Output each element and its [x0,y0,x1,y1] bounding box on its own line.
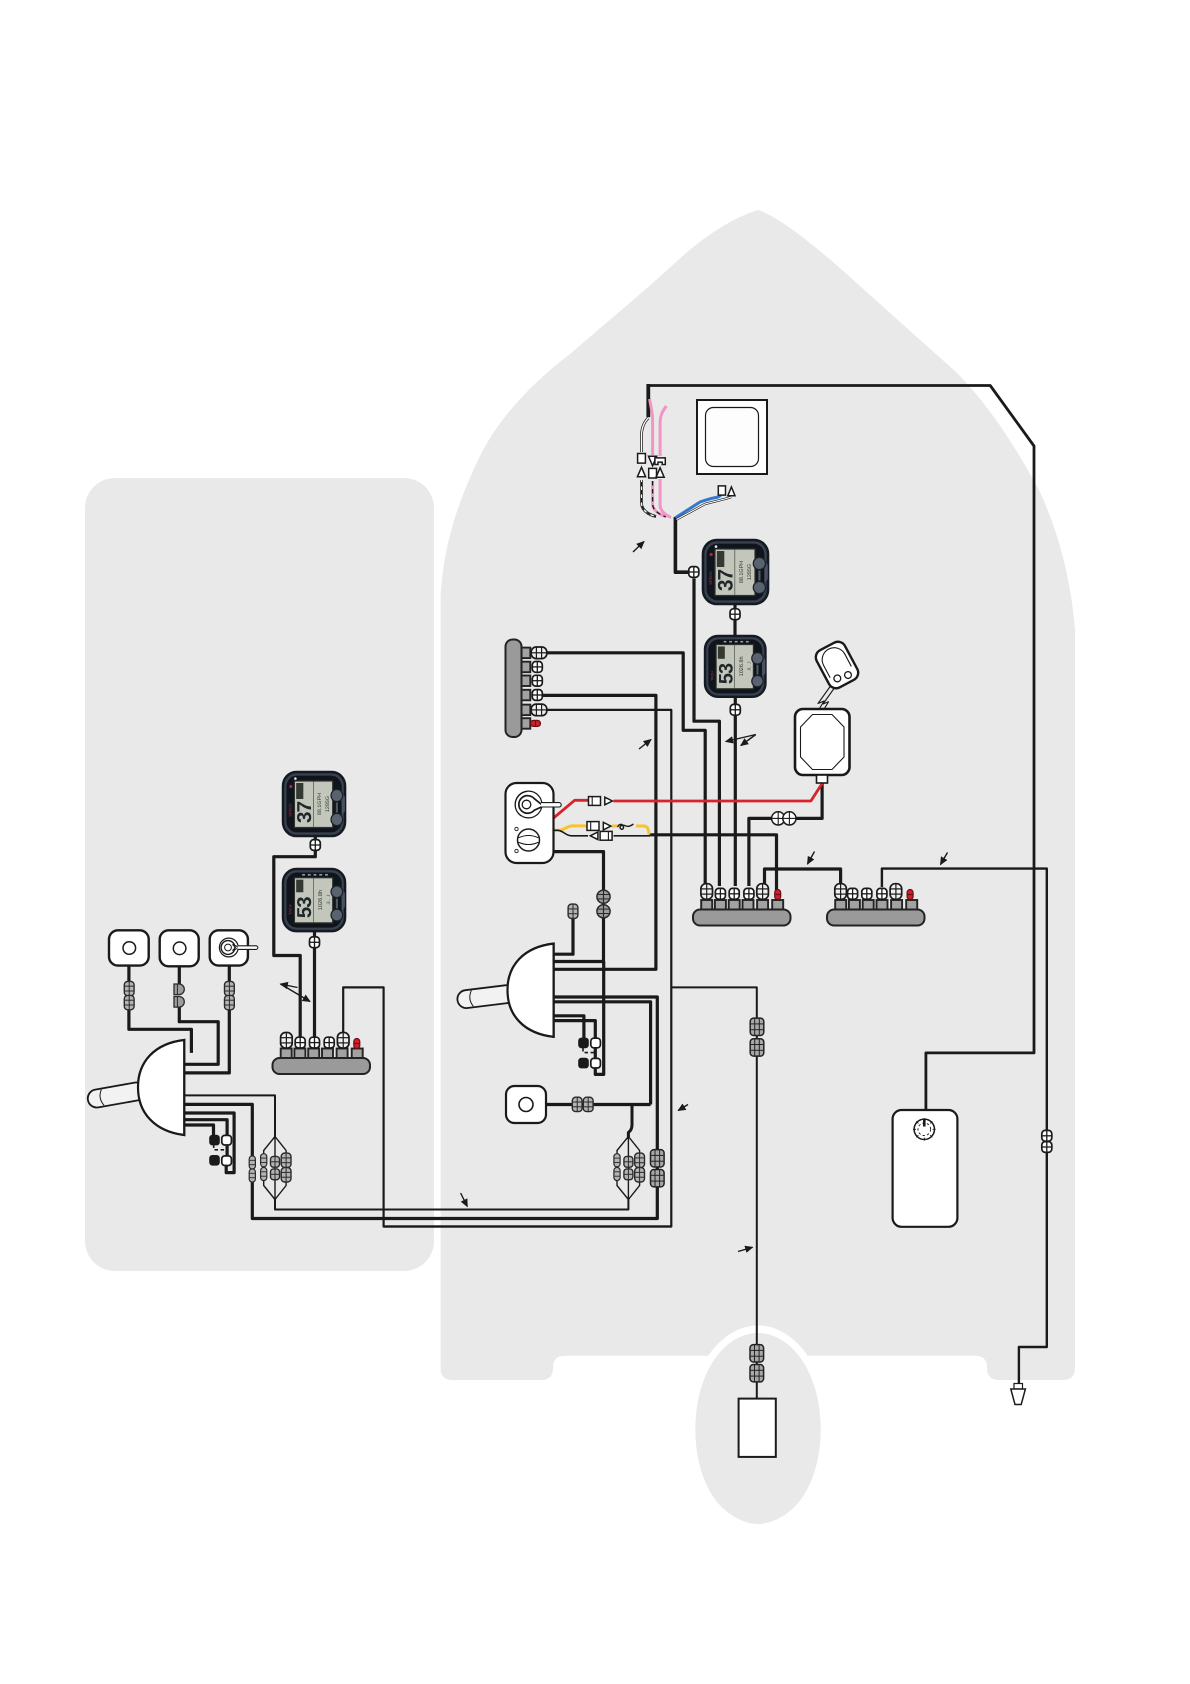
connector: bus1 stub2 [715,888,725,899]
connector: bus2 stub1 [835,884,847,900]
wire: helm switch2 lead to console [179,966,218,1064]
callout arrow: console bottom run [678,1105,688,1111]
wire: split-to-split bottom run [275,1199,628,1210]
wire: remote console stub lead (a) [554,917,573,954]
wire: helm speed gauge to helm bus stub2 [274,834,316,1040]
connector: bus2 stub3 [862,888,872,899]
wire: squiggle on yellow lead [618,824,634,829]
connectors: round pair on sensor ground [772,812,785,825]
wire: speed sensor lead to console tee [546,1103,651,1106]
speedometer gauge (console) [703,540,768,604]
wire: main switch to remote console (b) [553,852,604,962]
vertical bus bar [506,640,531,738]
main switch (ignition) panel [506,783,562,863]
wire: fuel sensor lightning link [812,686,835,727]
main bus bar 1 [693,900,791,926]
connector: bus2 stub6 (red) [907,890,913,900]
connector: speed gauge input [689,567,699,578]
connector pair on pink lead 2 [655,458,665,477]
wire: fuel sensor ground to main bus1 stub4 [749,781,822,886]
boat hull outline [441,210,1075,1380]
callout arrow: fuel pickup line [941,853,948,865]
wire: bus2 stub4 to fuel pickup [882,869,1047,1385]
wire: harness black/white lead (left of bundle) [642,418,657,517]
connector: bus1 stub4 [744,888,754,899]
wire: black stub dashed link console [583,1048,595,1053]
wire: helm console lead w1 to left split [185,1095,276,1137]
connector: helm bus stub2 [295,1037,305,1048]
helm switch 1 [109,930,149,965]
connector: vbus stub6 (red) [531,720,541,726]
connector: vbus stub5 [531,704,547,716]
remote control console [456,944,553,1037]
wire: harness blue lead [675,487,721,518]
wire: main switch black thin lead [553,830,588,836]
connector: helm bus stub4 [324,1037,334,1048]
key cylinder [515,791,542,818]
connectors: left split center [271,1156,280,1167]
connector pair on yellow lead [587,822,611,831]
callout arrow: helm gauge wires (double) [281,984,298,988]
callout arrow: gauge chain (double) [726,735,756,742]
wire: right split fork [617,1137,640,1200]
black connector pair (console trim) [578,1038,589,1069]
connector: vbus stub1 [531,647,547,659]
connector: bus1 stub5 [757,884,769,900]
connectors: motor harness stack upper [750,1018,764,1035]
connector: helm bus stub5 [337,1033,349,1049]
wire: console main harness (d) long run to helm console [185,997,658,1219]
helm steering console [86,1040,184,1135]
wire: trunk junction down to speed gauge connector [675,517,688,572]
connector: bus2 stub4 [877,888,887,899]
connectors: right split right column [635,1153,645,1167]
outboard motor silhouette [695,1333,820,1524]
connectors: round pair on console-switch link [597,890,610,903]
connector: helm bus stub6 (red) [354,1039,360,1049]
wire: speed gauge connector down to main bus1 stub2 [694,579,719,887]
connectors: right split center [624,1156,633,1167]
black connector pair (helm trim) [209,1135,220,1166]
wire: main switch black lead to bus1 stub6 [649,835,777,891]
wire: harness pink lead 1 [650,399,666,517]
connectors: fuel pickup line pair [1042,1130,1052,1141]
white connector pair (helm trim) [222,1135,232,1165]
connectors: motor harness stack lower [750,1345,764,1362]
connector: console stub (free) [568,904,578,918]
engine interface cap [813,639,861,691]
wire: bow loop from harness top to fuel sender [648,386,1034,1122]
callout arrow: harness trunk [633,542,644,553]
connectors: switch2 bullet leads [174,984,184,995]
helm tachometer gauge [283,869,345,931]
tachometer gauge (console) [705,636,765,697]
wire: helm switch1 lead [129,966,192,1053]
helm key switch [210,930,258,965]
choke knob [518,829,540,851]
connector: helm speed gauge [310,840,320,851]
wire: harness trunk top [646,384,650,417]
callout arrow: motor harness [738,1247,753,1251]
connector: bus1 stub6 (red) [775,890,781,900]
wire: tee down to right split [628,1105,632,1138]
speed sensor unit [506,1086,546,1123]
main bus bar 2 [827,900,925,926]
connector: helm bus stub1 [281,1033,293,1049]
connectors: left split left column [261,1154,267,1167]
fuel sender unit [914,1119,934,1139]
bilge access box [697,400,767,474]
connector pair on pink lead 1 [649,456,657,478]
wire: speed gauge to tach gauge link [733,602,736,639]
wire: remote console lead (e) to sensor tee [554,1002,651,1105]
connector: bus2 stub2 [848,888,858,899]
connectors: key switch leads [225,981,235,995]
connectors: left split right column [281,1153,291,1167]
control lever (console) [456,984,516,1009]
wire: helm tach gauge to helm bus stub3 [313,929,316,1040]
wire: remote console lead (f) to black connector [554,1016,584,1039]
callout arrow: vbus run [639,740,651,750]
wire: harness white lead (to bilge) [677,497,732,520]
connector: bus2 stub5 [890,884,902,900]
wire: harness pink lead 2 [660,406,671,518]
connector: speed gauge to tach [730,609,740,620]
connectors: console harness stack (right) [651,1150,665,1167]
connector pair on blue lead [718,486,735,496]
wire: helm console lead w4 through white connectors [185,1120,228,1160]
motor well white margin [688,1326,829,1532]
connectors: switch1 leads [124,981,134,995]
white connector pair (console trim) [591,1038,601,1068]
wire: vertical bus stub1 to main bus1 stub1 [546,653,705,886]
helm panel (inset) [85,478,434,1271]
connector: vbus stub3 [532,675,542,686]
wire: vertical bus stub4 to remote console (c) [542,695,656,969]
helm switch 2 [160,930,199,966]
steering lever (helm) [86,1081,146,1109]
wire: helm console lead w3 to white connector chain [185,1113,235,1173]
connector pair on red lead [589,797,613,806]
wire: branch to outboard motor [671,987,757,1398]
fuel tank [893,1110,958,1227]
connector pair on black thin lead [590,831,612,840]
wire: bottom thin run console to helm [384,1225,672,1227]
wire: helm key switch lead to console [185,966,229,1073]
wire: vertical bus stub5 long run to helm bus stub5 [343,710,671,1227]
helm speedometer gauge [283,772,345,836]
outboard motor block [739,1399,776,1457]
wire: bus1 stub5 to bus2 stub1 jumper [765,869,841,887]
wire: tach gauge down to main bus1 stub3 [734,695,737,886]
helm bus bar [273,1049,371,1075]
wire: left split fork [264,1137,286,1200]
wire: main switch yellow lead [553,826,587,830]
wire: helm console lead w5 to black connector [185,1125,214,1139]
connector: vbus stub2 [532,662,542,673]
connector: bus1 stub3 [729,888,739,899]
connector: helm bus stub3 [310,1037,320,1048]
connector: bus1 stub1 [701,884,713,900]
connectors: pills on console run [249,1156,255,1169]
connectors: right split left column [614,1154,620,1167]
connector: tach gauge output [730,704,740,715]
connector: vbus stub4 [532,690,542,701]
fuel line primer fitting [1011,1384,1026,1405]
callout arrow: bus jumper [808,852,815,865]
wire: main switch red lead to fuel sensor [553,800,588,818]
connector pair on white lead (left column) [637,454,645,477]
connector: helm tach gauge [310,937,320,948]
wire: black stub dashed link helm [214,1145,227,1150]
connectors: speed sensor pair [572,1097,582,1111]
fuel management sensor [795,709,850,783]
wire: remote console lead (g) through white connectors [554,962,604,1075]
callout arrow: split link run [461,1193,468,1207]
